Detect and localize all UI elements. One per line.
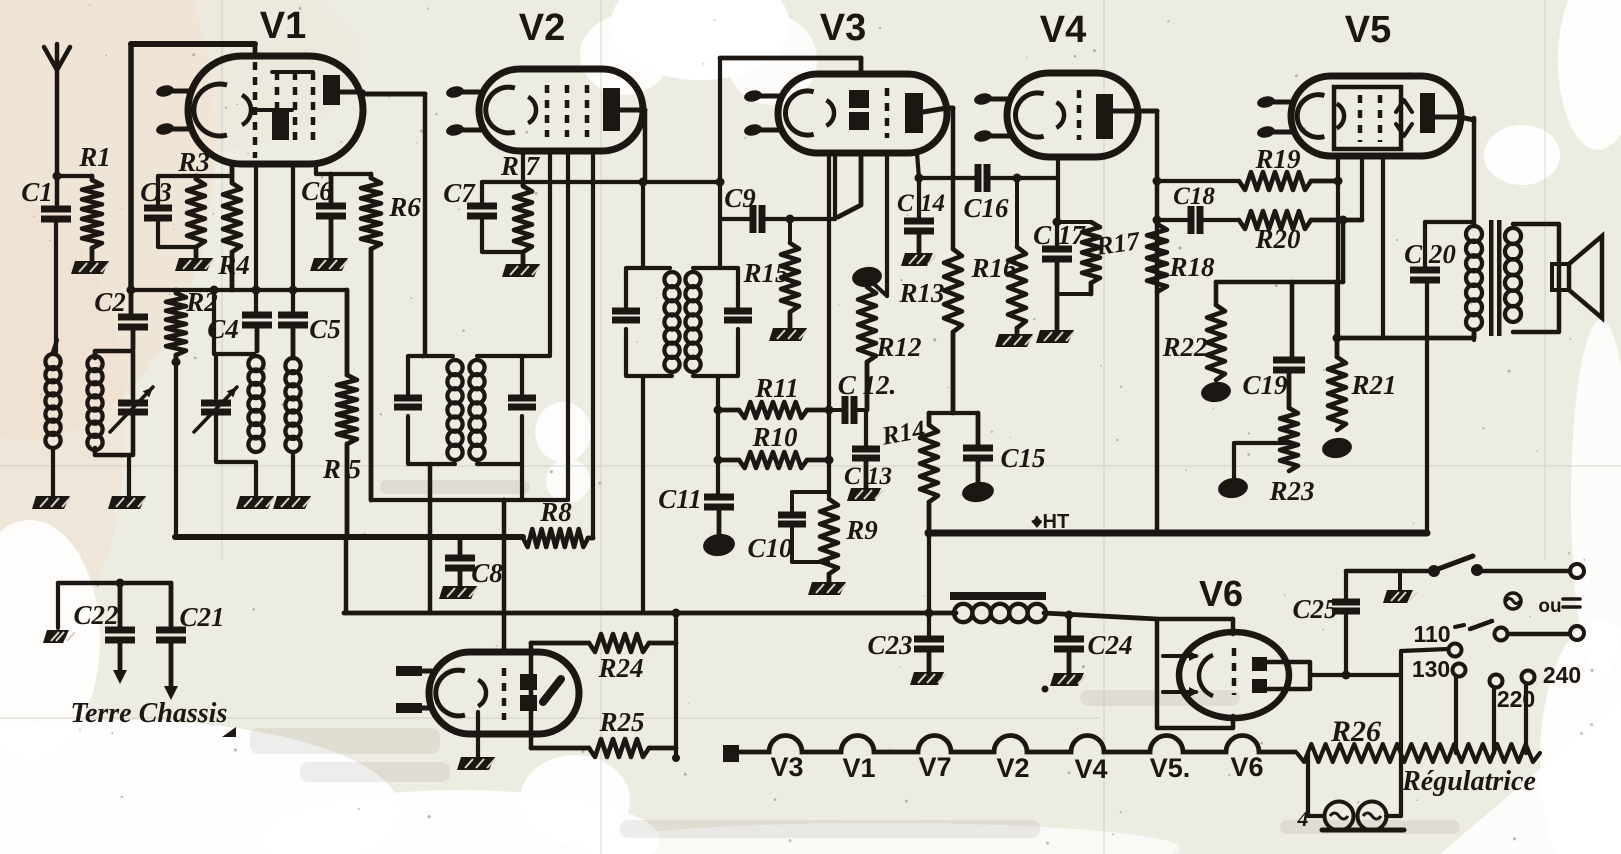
tube V2 pin <box>456 90 481 95</box>
tube V7 plates <box>520 674 537 690</box>
wire pin <box>591 151 595 538</box>
tube V7 diag <box>543 679 561 702</box>
capacitor C16 <box>975 164 982 192</box>
svg-text:C10: C10 <box>747 533 793 563</box>
wire R22 feed <box>1216 280 1343 285</box>
ground <box>236 496 274 509</box>
svg-text:C 20: C 20 <box>1404 239 1456 269</box>
wire <box>1310 673 1401 677</box>
terminal 220 <box>1490 675 1503 688</box>
switch2 contact <box>1495 628 1508 641</box>
switch wire <box>1481 569 1570 574</box>
ground <box>1050 673 1084 686</box>
svg-text:R25: R25 <box>598 707 644 737</box>
svg-text:V7: V7 <box>918 752 951 782</box>
svg-text:C15: C15 <box>1000 443 1045 473</box>
resistor R11 <box>739 402 807 418</box>
tuned circuit L2/VC1 frame <box>95 351 133 398</box>
resistor R23 <box>1280 408 1298 471</box>
ground <box>1383 590 1413 603</box>
svg-text:C21: C21 <box>179 602 224 632</box>
capacitor C6 <box>329 174 334 206</box>
coil L2 <box>87 356 102 371</box>
resistor R15 <box>788 219 792 243</box>
svg-text:C 12.: C 12. <box>838 370 897 400</box>
svg-text:R11: R11 <box>754 373 799 403</box>
resistor R24 <box>531 641 589 646</box>
wire pin V5 <box>1381 156 1385 338</box>
output transformer primary <box>1466 226 1482 242</box>
tube V4 plate <box>1096 94 1113 139</box>
grid-bus wire <box>131 288 347 292</box>
resistor R20 <box>1239 211 1311 229</box>
underline <box>1322 828 1404 833</box>
svg-text:V4: V4 <box>1040 9 1086 51</box>
svg-text:V1: V1 <box>842 753 875 783</box>
wire pin V5 <box>1336 156 1340 338</box>
tube V3 cathode <box>785 91 813 135</box>
ground <box>32 496 70 509</box>
tube V1 pin <box>166 127 190 132</box>
svg-text:R4: R4 <box>217 250 250 280</box>
svg-text:R20: R20 <box>1254 224 1301 254</box>
IFT1 unit A frame <box>408 356 453 363</box>
tube V7 pin <box>422 669 431 674</box>
tube V2 plate <box>603 88 620 131</box>
terminal <box>1570 626 1584 640</box>
wire R19 feed <box>1157 179 1239 183</box>
IFT2 unit B frame <box>693 268 738 311</box>
tube V2 plate lead <box>620 108 645 113</box>
svg-text:R1: R1 <box>78 142 111 172</box>
svg-text:Régulatrice: Régulatrice <box>1401 766 1536 797</box>
tube V1 envelope <box>188 56 363 164</box>
IFT1 unit B frame <box>477 356 522 398</box>
heater chain start <box>723 745 739 762</box>
svg-text:C22: C22 <box>73 600 118 630</box>
wire <box>529 643 534 748</box>
resistor R21 <box>1335 282 1340 357</box>
wire <box>131 41 255 47</box>
filter choke <box>950 592 1046 600</box>
switch pivot <box>1428 565 1440 577</box>
wire grid V3 <box>833 153 837 219</box>
resistor R10 <box>739 452 807 468</box>
wire <box>522 354 550 358</box>
svg-text:R18: R18 <box>1168 252 1215 282</box>
tube V6 plates <box>1252 657 1267 671</box>
coil L1 <box>53 340 57 352</box>
wire pin <box>827 153 831 497</box>
IFT2 unit A frame <box>626 268 670 275</box>
wire grid2 V1 <box>291 164 295 315</box>
dot <box>1042 686 1049 693</box>
AVC bus <box>482 180 722 184</box>
svg-text:C9: C9 <box>724 183 756 213</box>
ground stub <box>1398 571 1402 590</box>
resistor R8 <box>523 529 588 547</box>
svg-text:C 13: C 13 <box>844 463 892 490</box>
primary bottom wire <box>1338 336 1474 341</box>
switch2 lever <box>1470 621 1492 629</box>
svg-text:R23: R23 <box>1268 476 1314 506</box>
resistor R16 <box>1015 178 1019 247</box>
svg-text:V3: V3 <box>770 752 803 782</box>
IFT1 unit B capacitor <box>508 395 536 402</box>
wire <box>1401 649 1448 651</box>
tube V1 plate <box>323 75 340 105</box>
wire <box>716 376 720 497</box>
capacitor C17 <box>1055 222 1059 249</box>
wire pin V1 <box>314 164 318 174</box>
capacitor C20 top wire <box>1425 220 1474 224</box>
svg-text:V2: V2 <box>519 7 565 49</box>
svg-text:V6: V6 <box>1199 573 1243 614</box>
wire <box>502 500 507 652</box>
svg-text:R15: R15 <box>742 258 788 288</box>
resistor R6 <box>361 178 381 249</box>
ground <box>910 672 944 685</box>
resistor R19 <box>1239 172 1311 190</box>
capacitor C24 <box>1067 615 1071 639</box>
tube V5 envelope <box>1291 76 1461 156</box>
tube V2 pin <box>456 128 481 133</box>
capacitor C14 <box>917 153 919 178</box>
capacitor C12 <box>829 408 843 412</box>
svg-text:V3: V3 <box>820 7 866 49</box>
resistor R14 <box>927 413 932 425</box>
svg-text:C11: C11 <box>658 484 702 514</box>
svg-text:R3: R3 <box>177 147 210 177</box>
svg-text:C3: C3 <box>140 177 172 207</box>
svg-text:Terre: Terre <box>70 698 131 729</box>
capacitor C7 <box>467 203 497 210</box>
svg-text:R26: R26 <box>1330 715 1381 748</box>
wire <box>1234 443 1289 482</box>
wire <box>128 44 134 290</box>
IFT1 unit A capacitor <box>394 395 422 402</box>
wire <box>641 376 645 613</box>
output transformer secondary <box>1505 228 1521 244</box>
tube V3 plate <box>905 93 923 133</box>
terminal 240 <box>1522 671 1535 684</box>
tube V4 cathode <box>1015 93 1043 137</box>
wire <box>428 464 433 613</box>
coil L4 <box>285 358 300 373</box>
ground <box>175 258 213 271</box>
V6 bracket <box>1157 619 1233 728</box>
wire grid V3b <box>838 153 861 217</box>
V3 top bus <box>720 56 861 61</box>
tube V4 envelope <box>1007 73 1138 157</box>
svg-text:240: 240 <box>1543 662 1581 688</box>
ground <box>71 261 109 274</box>
terminal <box>1570 564 1584 578</box>
svg-text:C25: C25 <box>1292 594 1337 624</box>
resistor R12 <box>858 287 876 362</box>
tube V4 pin <box>984 97 1009 102</box>
svg-text:R21: R21 <box>1350 370 1396 400</box>
resistor R1 <box>82 180 102 248</box>
blob <box>1217 476 1249 500</box>
wire grid V1 <box>254 164 258 315</box>
svg-text:C7: C7 <box>443 178 476 208</box>
svg-text:R9: R9 <box>845 515 878 545</box>
capacitor C1 <box>41 206 71 213</box>
wire <box>253 44 258 57</box>
capacitor C7 box <box>480 182 484 206</box>
wire <box>212 290 216 354</box>
svg-text:Chassis: Chassis <box>139 698 228 729</box>
wire <box>718 58 722 268</box>
svg-text:V1: V1 <box>260 5 306 47</box>
svg-text:4: 4 <box>1297 806 1309 831</box>
IFT1 unit A coil <box>447 360 462 375</box>
ground <box>808 582 846 595</box>
DC symbol <box>1563 597 1580 601</box>
tube V2 cathode <box>486 87 515 133</box>
wire <box>371 498 568 502</box>
wire grid V2 <box>548 151 552 354</box>
svg-text:R10: R10 <box>751 422 798 452</box>
tube V3 pin <box>754 128 780 133</box>
resistor R7 <box>514 186 532 252</box>
wire <box>57 174 92 178</box>
resistor R13 <box>944 249 962 332</box>
lamp loop wire <box>1308 753 1324 816</box>
wire pin <box>885 153 889 296</box>
capacitor C20 <box>1423 222 1427 270</box>
ground <box>439 586 477 599</box>
output transformer core <box>1489 220 1494 336</box>
resistor R17 <box>1057 220 1091 224</box>
ground <box>502 264 540 277</box>
tube V1 inner wires <box>272 70 313 74</box>
terminal 110 <box>1449 644 1462 657</box>
IFT2 unit A coil <box>664 272 679 287</box>
wire <box>254 462 258 496</box>
wire <box>316 172 371 176</box>
tube V5 pin <box>1267 100 1293 105</box>
capacitor C25 <box>1344 571 1348 602</box>
tube V4 grid dashes <box>1077 90 1082 140</box>
svg-text:ou: ou <box>1538 596 1561 617</box>
svg-text:V5: V5 <box>1345 9 1391 51</box>
wire pin <box>566 151 570 500</box>
svg-text:V2: V2 <box>996 753 1029 783</box>
chassis bus right <box>1044 613 1157 619</box>
switch contact <box>1471 564 1483 576</box>
wire <box>1386 814 1401 818</box>
resistor R26 <box>1297 744 1540 762</box>
svg-text:R12: R12 <box>875 332 921 362</box>
ground <box>847 488 881 501</box>
tube V1 plate lead <box>340 90 363 95</box>
svg-text:C1: C1 <box>21 177 53 207</box>
wire <box>864 410 868 449</box>
blob <box>702 532 737 558</box>
wire <box>174 362 178 537</box>
capacitor C3 box <box>156 176 160 208</box>
tube V7 cathode lead <box>476 712 480 757</box>
tube V5 cathode <box>1297 95 1324 138</box>
resistor R2 <box>166 293 186 355</box>
ground <box>457 757 495 770</box>
ground <box>1036 330 1074 343</box>
tube V6 top lead <box>1231 619 1236 634</box>
svg-text:C16: C16 <box>963 193 1009 223</box>
svg-text:R6: R6 <box>388 192 421 222</box>
svg-text:C 14: C 14 <box>897 190 945 217</box>
svg-text:220: 220 <box>1497 686 1535 712</box>
resistor R25 <box>531 746 589 751</box>
tube V6 envelope <box>1179 632 1289 718</box>
svg-text:C23: C23 <box>867 630 912 660</box>
ground <box>273 496 311 509</box>
wire <box>127 455 131 496</box>
tube V5 inner box <box>1334 87 1401 149</box>
ground <box>310 258 348 271</box>
tube V3 envelope <box>778 74 947 153</box>
terminal 130 <box>1453 664 1466 677</box>
svg-text:V4: V4 <box>1074 754 1107 784</box>
AVC wire <box>919 176 974 180</box>
capacitor C5 <box>278 312 308 319</box>
HT bus <box>929 530 1427 537</box>
wire <box>1454 677 1458 753</box>
wire <box>927 533 931 639</box>
resistor R18 <box>1147 224 1167 292</box>
svg-text:110: 110 <box>1413 621 1450 647</box>
tube V2 grid dashes <box>545 85 550 137</box>
svg-text:R13: R13 <box>898 278 944 308</box>
IFT1 unit B coil <box>469 360 484 375</box>
switch wire <box>1346 569 1434 574</box>
resistor R4 <box>223 183 241 252</box>
variable capacitor VC2 <box>201 400 231 407</box>
wire R14 top <box>929 411 978 415</box>
ground <box>769 328 807 341</box>
switch2 wire <box>1508 632 1568 637</box>
svg-text:V5.: V5. <box>1150 753 1191 783</box>
capacitor C9 <box>722 217 751 221</box>
tube V7 pin <box>422 706 431 711</box>
ground <box>901 253 933 266</box>
capacitor C11 <box>704 494 734 501</box>
speaker frame <box>1513 224 1559 332</box>
ground bus <box>175 534 523 540</box>
heater chain <box>738 736 1297 752</box>
svg-text:C19: C19 <box>1242 370 1288 400</box>
speaker voice coil <box>1552 264 1569 290</box>
blob small <box>43 630 69 643</box>
coil L3 <box>248 356 263 371</box>
tube V5 pin <box>1267 130 1293 135</box>
wire <box>344 537 349 613</box>
svg-text:R 7: R 7 <box>500 151 541 181</box>
tube V6 bottom lead <box>1231 716 1236 728</box>
wire C18 feed <box>1157 218 1188 222</box>
IFT2 unit B capacitor <box>724 308 752 315</box>
IFT2 unit A capacitor <box>612 308 640 315</box>
wire <box>1524 683 1528 753</box>
tube V6 heater pins <box>1163 654 1196 658</box>
tube V4 pin <box>984 134 1009 139</box>
capacitor C4 <box>242 312 272 319</box>
resistor R3 <box>187 179 205 247</box>
switch lever <box>1438 556 1473 569</box>
ground <box>108 496 146 509</box>
capacitor C13 <box>852 446 880 453</box>
tuned circuit C4 frame <box>216 354 254 398</box>
wire <box>520 464 524 500</box>
tube V5 grid dashes <box>1358 95 1363 142</box>
capacitor C23 <box>914 636 944 643</box>
wire <box>56 583 60 628</box>
capacitor C10 box <box>792 490 828 494</box>
tube V3 plate lead <box>923 108 947 112</box>
capacitor C8 <box>458 537 463 558</box>
speaker cone <box>1569 236 1602 318</box>
tube V1 grid dashes <box>253 62 258 158</box>
ground <box>995 334 1033 347</box>
svg-text:C6: C6 <box>301 176 333 206</box>
arrow down <box>113 670 127 684</box>
capacitor C22 <box>118 583 123 630</box>
resistor R9 <box>820 499 838 574</box>
capacitor C10 <box>778 512 806 519</box>
wire <box>674 613 678 758</box>
resistor R22 <box>1207 305 1225 380</box>
tube V2 envelope <box>479 69 643 151</box>
resistor R5 <box>345 290 350 375</box>
capacitor C15 <box>976 413 981 448</box>
node C2 junction <box>127 286 136 295</box>
capacitor C21 <box>169 583 174 630</box>
wire R20 to C19 <box>1341 220 1346 282</box>
blob <box>1321 436 1353 460</box>
AC symbol <box>1505 593 1521 609</box>
tube V5 plate lead <box>1435 115 1462 120</box>
wire <box>641 182 645 268</box>
tube V4 plate lead <box>1112 109 1157 114</box>
tube V3 pin <box>754 94 780 99</box>
svg-text:C5: C5 <box>309 314 341 344</box>
tube V7 grid dashes <box>502 668 507 720</box>
svg-text:R16: R16 <box>970 253 1017 283</box>
wire pin <box>521 151 525 184</box>
potentiometer R12 top blob <box>851 265 883 289</box>
svg-text:R19: R19 <box>1254 144 1301 174</box>
tube V1 screen <box>272 112 289 140</box>
chassis bus <box>344 611 956 616</box>
tube V3 grid dashes <box>885 88 890 138</box>
tube V5 plate <box>1420 93 1435 133</box>
svg-text:C2: C2 <box>94 287 126 317</box>
svg-text:V6: V6 <box>1230 752 1263 782</box>
IFT2 unit B coil <box>685 272 700 287</box>
svg-text:C24: C24 <box>1087 630 1132 660</box>
blob <box>961 480 995 504</box>
svg-text:R22: R22 <box>1161 332 1207 362</box>
tube V6 cathode <box>1199 655 1213 696</box>
tube V5 arrows <box>1396 100 1412 112</box>
capacitor C19 <box>1273 357 1305 364</box>
wire <box>158 174 232 178</box>
svg-text:C8: C8 <box>471 558 503 588</box>
blob <box>1200 380 1232 404</box>
ballast lamp <box>1358 802 1387 831</box>
